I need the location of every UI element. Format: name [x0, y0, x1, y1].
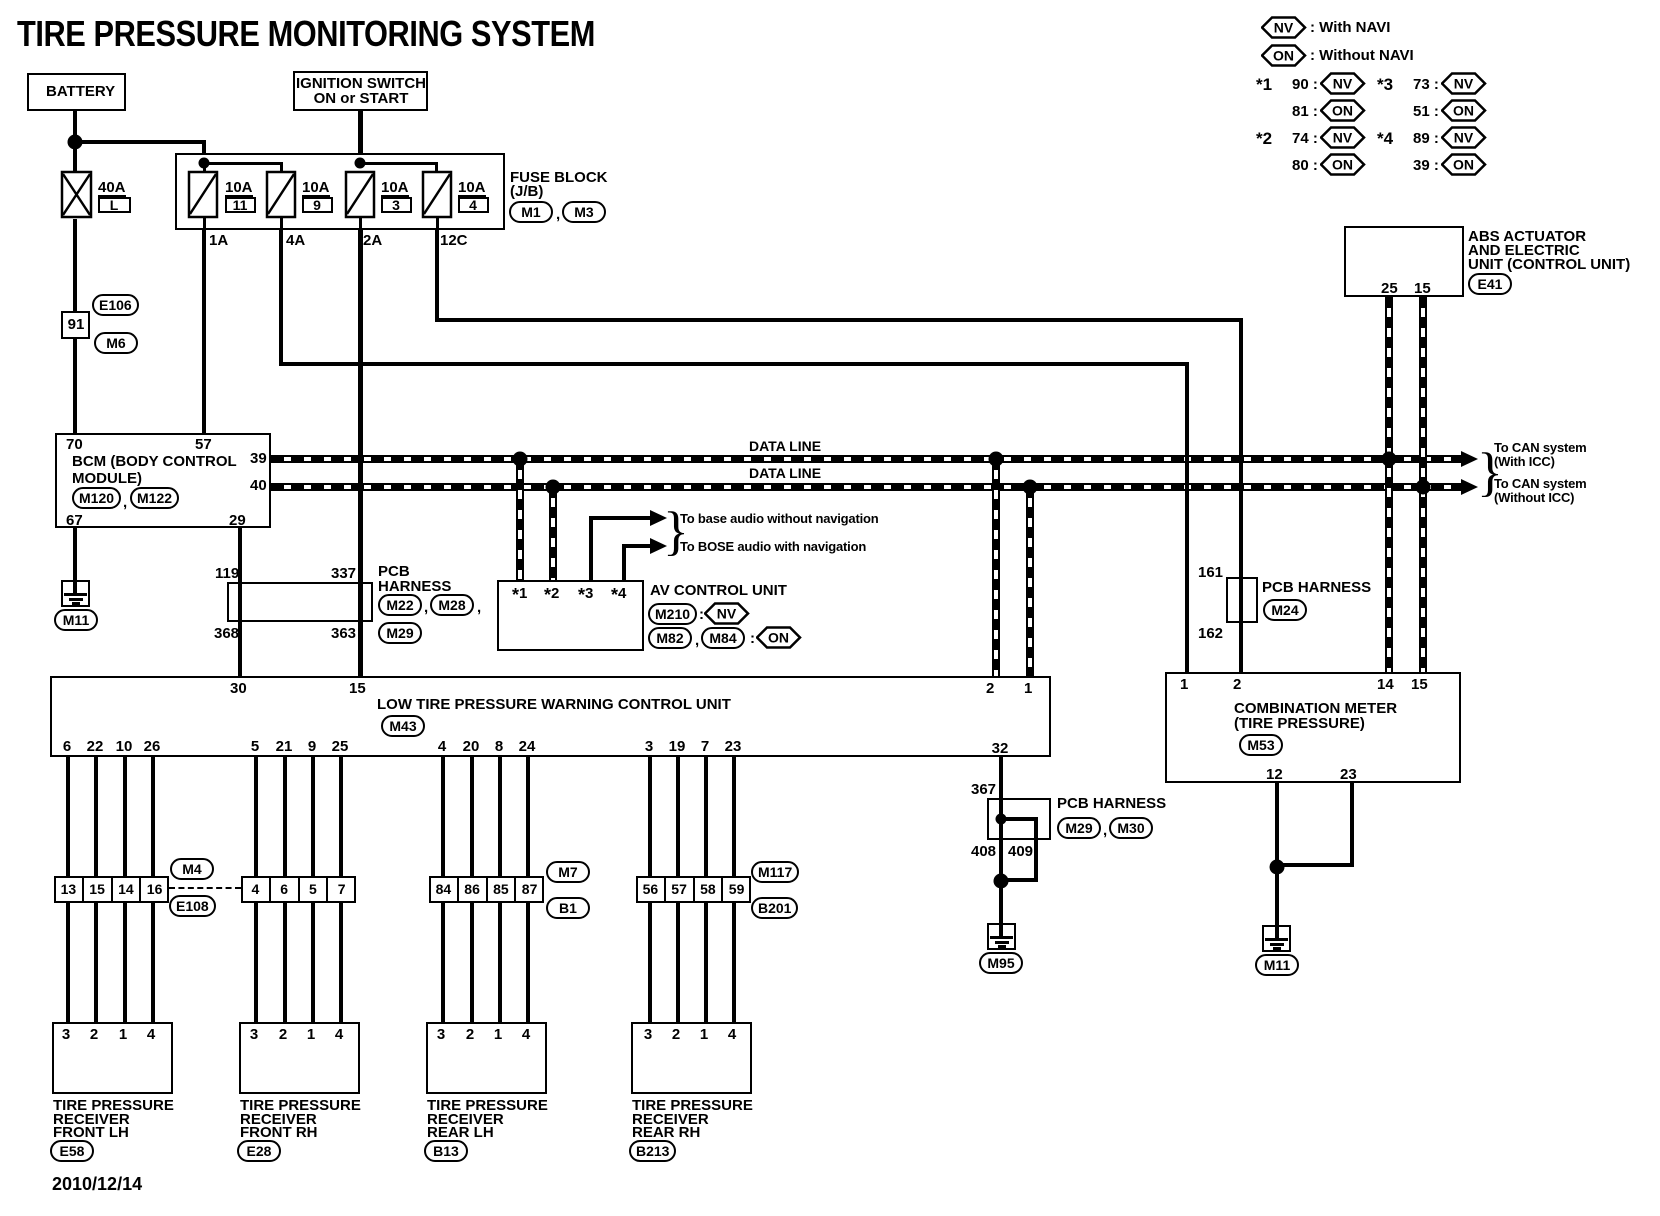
- pin 3: [645, 740, 653, 753]
- connector strip 84 86 85 87: [429, 876, 544, 903]
- ignition switch: [293, 71, 428, 111]
- connector M1: [509, 201, 553, 223]
- wire terminal 6 to receiver front RH pin 2: [283, 900, 287, 1022]
- tire pressure receiver rear LH box: [426, 1022, 547, 1094]
- connector strip 56 57 58 59: [636, 876, 751, 903]
- arrow to CAN (With ICC): [1461, 451, 1478, 467]
- svg-text:NV: NV: [1454, 130, 1474, 146]
- date: [52, 1178, 142, 1191]
- PCB harness M29/M30: [987, 798, 1051, 840]
- svg-text:NV: NV: [1333, 130, 1353, 146]
- svg-text:NV: NV: [717, 606, 737, 622]
- pin 20: [463, 740, 480, 753]
- title: [17, 17, 595, 51]
- legend row 80 ON: [1292, 159, 1318, 172]
- wire terminal 85 to receiver rear LH pin 1: [498, 900, 502, 1022]
- wire terminal 16 to receiver front LH pin 4: [151, 900, 155, 1022]
- wire LTPWCU pin 20 to terminal 86 (rear LH): [470, 757, 474, 877]
- fusible link 40A L: [60, 170, 93, 219]
- wire LTPWCU pin 7 to terminal 58 (rear RH): [704, 757, 708, 877]
- node battery junction: [68, 135, 83, 150]
- connector E106: [92, 294, 139, 316]
- battery: [27, 73, 126, 111]
- pin 24: [519, 740, 536, 753]
- connector M82 , M84 : ON: [648, 627, 692, 649]
- BCM (BODY CONTROL MODULE): [55, 433, 271, 528]
- wire terminal 56 to receiver rear RH pin 3: [648, 900, 652, 1022]
- connector B201: [751, 897, 798, 919]
- wire 4A down: [279, 230, 283, 366]
- connector E41: [1468, 273, 1512, 295]
- wire meter 12 to ground: [1275, 783, 1279, 939]
- wire terminal 15 to receiver front LH pin 2: [94, 900, 98, 1022]
- wire terminal 84 to receiver rear LH pin 3: [441, 900, 445, 1022]
- terminal labels 1A 4A 2A 12C: [209, 234, 228, 247]
- pin 26: [144, 740, 161, 753]
- PCB harness M22/M28/M29: [227, 582, 373, 622]
- legend: NV = With NAVI: [1261, 16, 1307, 39]
- wire battery to fuse block: [75, 140, 206, 144]
- wire LTPWCU pin 21 to terminal 6 (front RH): [283, 757, 287, 877]
- pin 6: [63, 740, 71, 753]
- legend row *1 : 90 NV: [1256, 78, 1272, 91]
- pin 7: [701, 740, 709, 753]
- arrow to CAN (Without ICC): [1461, 479, 1478, 495]
- pin 23: [725, 740, 742, 753]
- fuse rating label 10A 11: [225, 181, 253, 197]
- wire 12C down: [435, 230, 439, 322]
- node data junctions: [513, 452, 528, 467]
- wire terminal 5 to receiver front RH pin 1: [311, 900, 315, 1022]
- wire LTPWCU pin 9 to terminal 5 (front RH): [311, 757, 315, 877]
- svg-text:ON: ON: [1332, 103, 1353, 119]
- svg-text:NV: NV: [1274, 20, 1294, 36]
- pin 4: [438, 740, 446, 753]
- wire LTPWCU pin 26 to terminal 16 (front LH): [151, 757, 155, 877]
- connector strip 13 15 14 16: [54, 876, 169, 903]
- pin 10: [116, 740, 133, 753]
- ground M11: [61, 580, 90, 607]
- wire terminal 87 to receiver rear LH pin 4: [526, 900, 530, 1022]
- connector M24: [1263, 599, 1307, 621]
- pin 8: [495, 740, 503, 753]
- AV CONTROL UNIT label: [650, 584, 787, 597]
- svg-text:NV: NV: [1333, 76, 1353, 92]
- low tire pressure warning control unit M43: [50, 676, 1051, 757]
- ABS actuator and electric unit: [1344, 226, 1464, 297]
- fuse 10A #3: [344, 170, 376, 219]
- wire link to fuse 4: [360, 162, 437, 165]
- legend row *2 : 74 NV: [1256, 132, 1272, 145]
- wire LTPWCU pin 8 to terminal 85 (rear LH): [498, 757, 502, 877]
- pin 21: [276, 740, 293, 753]
- connector M6: [94, 332, 138, 354]
- fuse 10A #9: [265, 170, 297, 219]
- connector M43: [381, 715, 425, 737]
- wire AV *3 to audio arrow: [589, 516, 593, 580]
- pin 25: [332, 740, 349, 753]
- dashed link M4/E108 to strip 2: [169, 887, 241, 889]
- wire BCM 67 to ground: [73, 528, 77, 596]
- pin 22: [87, 740, 104, 753]
- fuse rating label 10A 4: [458, 181, 486, 197]
- fuse block (J/B): [175, 153, 505, 230]
- tire pressure receiver rear RH box: [631, 1022, 752, 1094]
- wire 4A across to combination meter pin 1: [279, 362, 1189, 366]
- wire terminal 4 to receiver front RH pin 3: [254, 900, 258, 1022]
- connector M3: [562, 201, 606, 223]
- connector E108: [169, 895, 216, 917]
- wire link to fuse 2: [204, 162, 281, 165]
- legend row *3 : 73 NV: [1377, 78, 1393, 91]
- combination meter (tire pressure) M53: [1165, 672, 1461, 783]
- node fuse feed 2: [355, 158, 366, 169]
- connector M4: [170, 858, 214, 880]
- connector E28: [237, 1140, 281, 1162]
- connector M53: [1239, 734, 1283, 756]
- wire 2A down to pin 15: [358, 230, 363, 676]
- wire LTPWCU pin 24 to terminal 87 (rear LH): [526, 757, 530, 877]
- wire LTPWCU pin 6 to terminal 13 (front LH): [66, 757, 70, 877]
- pin 5: [251, 740, 259, 753]
- connector B1: [546, 897, 590, 919]
- svg-text:ON: ON: [768, 630, 789, 646]
- connector M117: [751, 861, 799, 883]
- wire terminal 14 to receiver front LH pin 1: [123, 900, 127, 1022]
- tire pressure receiver front RH box: [239, 1022, 360, 1094]
- wire ignition down: [358, 111, 363, 163]
- fuse bottom stubs: [203, 217, 206, 230]
- wire dashed drop to AV *2: [549, 487, 557, 580]
- pin 9: [308, 740, 316, 753]
- legend row 39 ON: [1413, 159, 1439, 172]
- data line 39: [271, 455, 1461, 463]
- data line 40: [271, 483, 1461, 491]
- wire BCM 29 down to pin 30: [238, 528, 242, 676]
- wire dashed drop to AV *1: [516, 459, 524, 580]
- wire dashed ABS 15 to comb meter 15: [1419, 297, 1427, 672]
- PCB harness M24: [1226, 577, 1258, 623]
- wire 91 to BCM pin 70: [73, 339, 77, 433]
- wire 1A to BCM pin 57: [202, 230, 206, 433]
- legend row 51 ON: [1413, 105, 1439, 118]
- connector B13: [424, 1140, 468, 1162]
- wire terminal 57 to receiver rear RH pin 2: [676, 900, 680, 1022]
- svg-text:ON: ON: [1453, 157, 1474, 173]
- wire LTPWCU 32 down: [999, 757, 1003, 882]
- fuse 10A #4: [421, 170, 453, 219]
- svg-text:ON: ON: [1273, 48, 1294, 64]
- wire LTPWCU pin 10 to terminal 14 (front LH): [123, 757, 127, 877]
- node fuse feed 1: [199, 158, 210, 169]
- connector M210 : NV: [648, 603, 697, 625]
- legend row *4 : 89 NV: [1377, 132, 1393, 145]
- wire LTPWCU pin 4 to terminal 84 (rear LH): [441, 757, 445, 877]
- wire fuse1 stub: [203, 163, 206, 173]
- node ground junction: [994, 874, 1009, 889]
- connector M120: [72, 487, 121, 509]
- connector M22: [378, 594, 422, 616]
- ground M11 (meter): [1262, 925, 1291, 952]
- wire terminal 58 to receiver rear RH pin 1: [704, 900, 708, 1022]
- wire AV *4 to audio arrow: [622, 544, 626, 580]
- wire dashed ABS 25 to comb meter 14: [1385, 297, 1393, 672]
- ground M95: [987, 923, 1016, 950]
- AV control unit: [497, 580, 644, 651]
- tire pressure receiver front LH box: [52, 1022, 173, 1094]
- wire battery down: [73, 111, 77, 173]
- legend row 81 ON: [1292, 105, 1318, 118]
- connector strip 4 6 5 7: [241, 876, 356, 903]
- wire LTPWCU pin 23 to terminal 59 (rear RH): [732, 757, 736, 877]
- wire LTPWCU pin 5 to terminal 4 (front RH): [254, 757, 258, 877]
- pin 19: [669, 740, 686, 753]
- connector M29: [1057, 817, 1101, 839]
- wire terminal 7 to receiver front RH pin 4: [339, 900, 343, 1022]
- svg-text:NV: NV: [1454, 76, 1474, 92]
- wire to ground M95: [999, 882, 1003, 937]
- node meter ground junction: [1270, 860, 1285, 875]
- connector M7: [546, 861, 590, 883]
- svg-text:ON: ON: [1453, 103, 1474, 119]
- wire LTPWCU pin 3 to terminal 56 (rear RH): [648, 757, 652, 877]
- wire LTPWCU pin 19 to terminal 57 (rear RH): [676, 757, 680, 877]
- fuse rating label 10A 9: [302, 181, 330, 197]
- fuse 10A #11: [187, 170, 219, 219]
- connector M28: [430, 594, 474, 616]
- node pcb inner junction: [996, 814, 1007, 825]
- wire pcb branch 409: [1001, 817, 1038, 821]
- fuse rating label 10A 3: [381, 181, 409, 197]
- wire dashed drop to LTPWCU pin 1: [1026, 487, 1034, 676]
- wire dashed drop to LTPWCU pin 2: [992, 459, 1000, 676]
- connector B213: [629, 1140, 676, 1162]
- connector E58: [50, 1140, 94, 1162]
- wire LTPWCU pin 22 to terminal 15 (front LH): [94, 757, 98, 877]
- connector M30: [1109, 817, 1153, 839]
- wire 12C across to PCB harness M24: [435, 318, 1243, 322]
- connector 91 (E106/M6): [61, 311, 90, 339]
- legend: ON = Without NAVI: [1261, 44, 1307, 67]
- wire LTPWCU pin 25 to terminal 7 (front RH): [339, 757, 343, 877]
- wire meter 23 down: [1350, 783, 1354, 867]
- wire terminal 13 to receiver front LH pin 3: [66, 900, 70, 1022]
- connector M29: [378, 622, 422, 644]
- wire terminal 86 to receiver rear LH pin 2: [470, 900, 474, 1022]
- connector M122: [130, 487, 179, 509]
- FUSE BLOCK (J/B) label: [510, 171, 608, 199]
- wire 40A fuse down to connector 91: [73, 219, 77, 311]
- wire terminal 59 to receiver rear RH pin 4: [732, 900, 736, 1022]
- wire meter 23 across: [1277, 863, 1354, 867]
- svg-text:ON: ON: [1332, 157, 1353, 173]
